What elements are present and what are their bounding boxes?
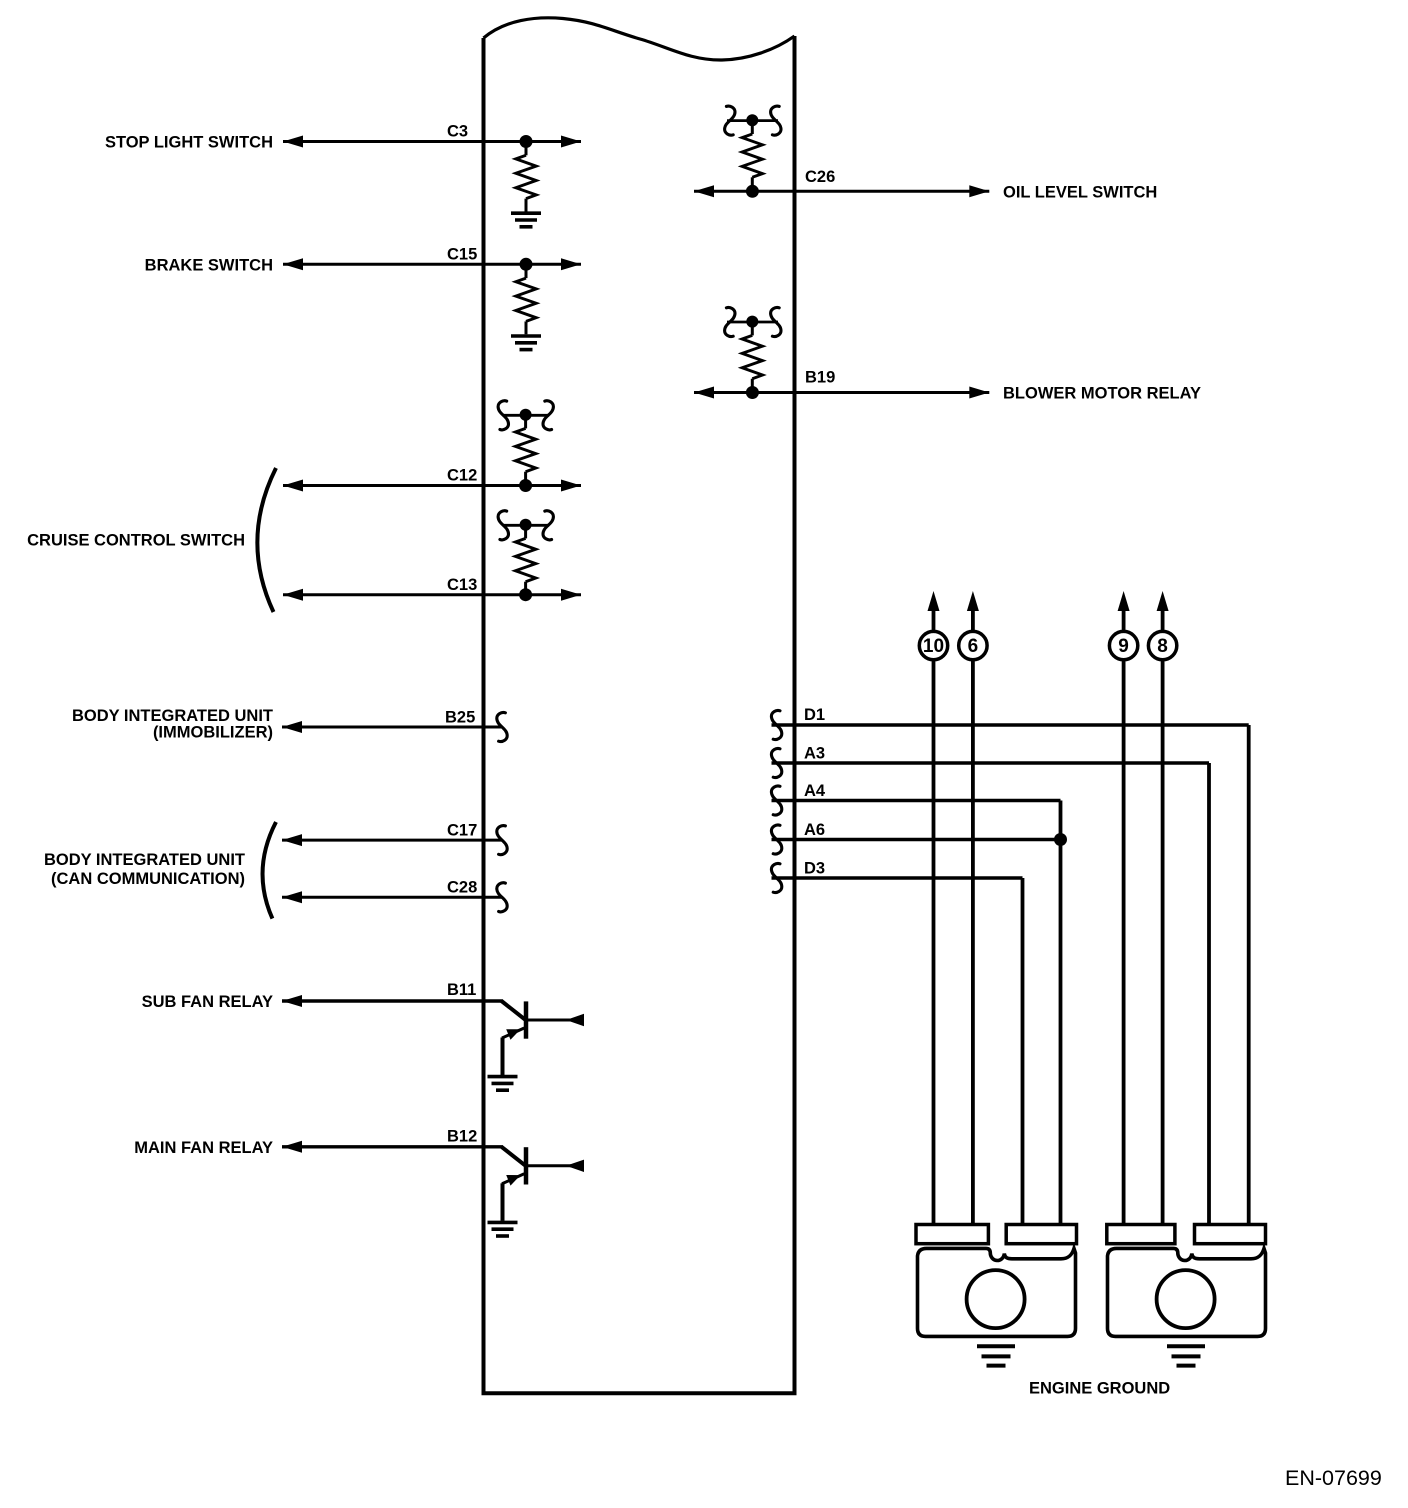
node: junction dot on C26 [746, 185, 759, 198]
connector number 10 [919, 631, 947, 659]
wire A4 (ground line) [772, 801, 1061, 1225]
ground (Q2 emitter) [488, 1222, 518, 1236]
wire to connector 8 (vertical, up arrow) [1157, 591, 1169, 1224]
ground (C3 pull-down) [511, 213, 541, 227]
svg-text:10: 10 [923, 636, 944, 657]
wire B19 (blower motor relay line) [694, 387, 989, 399]
svg-text:EN-07699: EN-07699 [1285, 1466, 1382, 1490]
svg-text:SUB FAN RELAY: SUB FAN RELAY [142, 993, 273, 1011]
svg-text:BODY INTEGRATED UNIT: BODY INTEGRATED UNIT [72, 707, 273, 725]
svg-text:6: 6 [968, 636, 979, 657]
svg-text:B11: B11 [447, 981, 476, 999]
wire-break squiggle at A6 [771, 825, 781, 854]
wire-break squiggle at D3 [771, 863, 781, 892]
svg-text:D1: D1 [804, 706, 825, 724]
svg-text:A6: A6 [804, 821, 825, 839]
wire B11 (sub fan relay line) [282, 995, 503, 1007]
ground (lug 1) [977, 1346, 1015, 1365]
ground (C15 pull-down) [511, 336, 541, 350]
svg-text:ENGINE GROUND: ENGINE GROUND [1029, 1380, 1170, 1398]
wire to connector 9 (vertical, up arrow) [1118, 591, 1130, 1224]
svg-text:CRUISE CONTROL SWITCH: CRUISE CONTROL SWITCH [27, 532, 245, 550]
wire B25 (immobilizer line) [282, 721, 503, 733]
engine ground lug 2: terminal blocks [1107, 1225, 1266, 1244]
svg-text:C15: C15 [447, 246, 477, 264]
wire-break squiggle at B25 [497, 712, 507, 741]
node: junction dot on C3 [520, 135, 533, 148]
svg-text:(IMMOBILIZER): (IMMOBILIZER) [153, 724, 273, 742]
wire A6 (joins A4 ground line) [772, 838, 1061, 841]
node: junction dot on C15 [520, 258, 533, 271]
wire C28 (CAN line 2) [282, 891, 503, 903]
wire C17 (CAN line 1) [282, 834, 503, 846]
svg-text:B12: B12 [447, 1128, 477, 1146]
node: junction dot on B19 [746, 386, 759, 399]
svg-text:A4: A4 [804, 782, 826, 800]
wire to connector 6 (vertical, up arrow) [967, 591, 979, 1224]
ground (Q1 emitter) [488, 1077, 518, 1091]
svg-text:D3: D3 [804, 860, 825, 878]
svg-text:STOP LIGHT SWITCH: STOP LIGHT SWITCH [105, 134, 273, 152]
wire C3 (stop light switch line) [283, 136, 581, 148]
svg-text:BLOWER MOTOR RELAY: BLOWER MOTOR RELAY [1003, 385, 1201, 403]
wire D3 (ground line) [772, 878, 1023, 1224]
svg-text:BRAKE SWITCH: BRAKE SWITCH [145, 256, 273, 274]
engine ground lug 1: bolt hole [967, 1270, 1025, 1328]
resistor (pull-up on B19 with interrupted supply wire) [725, 307, 781, 392]
svg-text:C12: C12 [447, 467, 477, 485]
svg-text:MAIN FAN RELAY: MAIN FAN RELAY [134, 1139, 273, 1157]
wire B12 (main fan relay line) [282, 1141, 503, 1153]
svg-text:C17: C17 [447, 822, 477, 840]
svg-text:C3: C3 [447, 123, 468, 141]
bracket arc (cruise control switch pair) [257, 468, 276, 612]
node: junction dot A6/A4 [1054, 833, 1067, 846]
transistor Q2 (main fan driver) [502, 1147, 585, 1221]
wire C12 (cruise control line 1) [283, 480, 581, 492]
wire to connector 10 (vertical, up arrow) [928, 591, 940, 1224]
svg-text:C28: C28 [447, 879, 477, 897]
node: junction dot on C12 [519, 479, 532, 492]
transistor Q1 (sub fan driver) [502, 1001, 585, 1075]
svg-text:B19: B19 [805, 369, 835, 387]
svg-text:9: 9 [1118, 636, 1129, 657]
engine ground lug 2: body [1108, 1248, 1266, 1336]
engine ground lug 1: body [918, 1248, 1076, 1336]
wire-break squiggle at C28 [497, 883, 507, 912]
wire C13 (cruise control line 2) [283, 589, 581, 601]
resistor (pull-up on C12 with interrupted supply wire) [498, 401, 553, 486]
svg-text:C13: C13 [447, 576, 477, 594]
resistor (pull-down on C3) [516, 142, 536, 212]
svg-text:C26: C26 [805, 168, 835, 186]
connector number 8 [1148, 631, 1176, 659]
svg-text:OIL LEVEL SWITCH: OIL LEVEL SWITCH [1003, 183, 1157, 201]
engine ground lug 1: terminal blocks [916, 1225, 1077, 1244]
wire C26 (oil level switch line) [694, 185, 989, 197]
svg-text:8: 8 [1157, 636, 1168, 657]
wire C15 (brake switch line) [283, 258, 581, 270]
resistor (pull-down on C15) [516, 264, 536, 334]
engine ground lug 2: bolt hole [1157, 1270, 1215, 1328]
wire D1 (ground line to terminal 8 side) [772, 725, 1249, 1224]
connector number 6 [959, 631, 987, 659]
wire-break squiggle at C17 [497, 826, 507, 855]
wire-break squiggle at A4 [771, 786, 781, 815]
wire A3 (ground line) [772, 763, 1210, 1224]
svg-text:B25: B25 [445, 709, 475, 727]
ground (lug 2) [1167, 1346, 1205, 1365]
svg-text:A3: A3 [804, 745, 825, 763]
svg-text:BODY INTEGRATED UNIT: BODY INTEGRATED UNIT [44, 851, 245, 869]
node: junction dot on C13 [519, 588, 532, 601]
ECM block outline (torn-top rectangle) [484, 18, 795, 1393]
wire-break squiggle at D1 [771, 710, 781, 739]
wire-break squiggle at A3 [771, 748, 781, 777]
resistor (pull-up on C26 with interrupted supply wire) [725, 106, 781, 191]
resistor (pull-up on C13 with interrupted supply wire) [498, 511, 553, 595]
bracket arc (CAN pair) [263, 822, 276, 919]
connector number 9 [1109, 631, 1137, 659]
svg-text:(CAN COMMUNICATION): (CAN COMMUNICATION) [51, 870, 245, 888]
text BODY INTEGRATED UNIT (IMMOBILIZER) [72, 707, 273, 742]
text BODY INTEGRATED UNIT (CAN COMMUNICATION) [44, 851, 245, 888]
